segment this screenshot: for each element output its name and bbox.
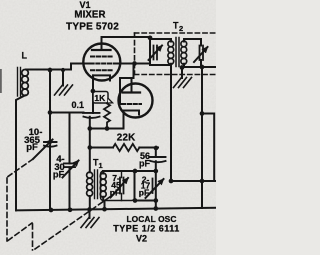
- svg-text:pF: pF: [53, 170, 65, 180]
- svg-text:pF: pF: [110, 188, 120, 198]
- svg-text:L: L: [22, 51, 28, 61]
- svg-text:1: 1: [99, 161, 103, 170]
- svg-text:pF: pF: [139, 188, 149, 198]
- svg-text:1K: 1K: [94, 93, 106, 103]
- svg-text:V1: V1: [79, 0, 90, 10]
- svg-text:pF: pF: [139, 159, 150, 169]
- svg-text:TYPE 5702: TYPE 5702: [66, 22, 119, 33]
- svg-text:22K: 22K: [117, 133, 136, 144]
- svg-text:LOCAL OSC: LOCAL OSC: [126, 214, 176, 224]
- svg-text:0.1: 0.1: [72, 100, 85, 110]
- svg-text:2: 2: [179, 24, 183, 33]
- svg-text:MIXER: MIXER: [74, 10, 105, 21]
- svg-text:pF: pF: [26, 142, 38, 153]
- svg-text:TYPE 1/2 6111: TYPE 1/2 6111: [113, 224, 180, 234]
- svg-text:V2: V2: [136, 234, 147, 244]
